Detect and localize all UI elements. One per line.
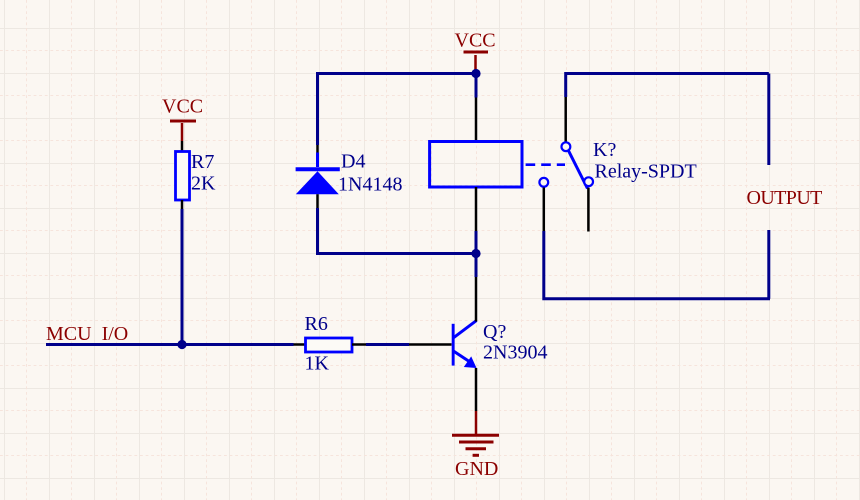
svg-text:D4: D4 bbox=[341, 151, 365, 173]
svg-text:Q?: Q? bbox=[483, 321, 506, 343]
node junction collector/diode bbox=[471, 249, 480, 258]
wire diode top to VCC rail bbox=[318, 74, 474, 146]
wire VCC node to relay coil bbox=[475, 74, 478, 98]
svg-text:2N3904: 2N3904 bbox=[483, 342, 547, 364]
wire collector to node bbox=[475, 231, 478, 277]
svg-text:OUTPUT: OUTPUT bbox=[747, 187, 823, 209]
svg-text:2K: 2K bbox=[191, 173, 216, 195]
svg-text:MCU I/O: MCU I/O bbox=[46, 323, 128, 345]
resistor R7 bbox=[176, 141, 190, 209]
wire diode bottom rail bbox=[318, 208, 474, 254]
svg-text:VCC: VCC bbox=[162, 96, 203, 118]
svg-text:R7: R7 bbox=[191, 151, 214, 173]
svg-text:1N4148: 1N4148 bbox=[338, 174, 402, 196]
svg-text:GND: GND bbox=[455, 458, 498, 480]
svg-text:K?: K? bbox=[593, 139, 616, 161]
resistor R6 bbox=[294, 338, 367, 352]
relay switch contacts bbox=[539, 97, 593, 232]
power port VCC (top) bbox=[455, 30, 496, 71]
relay coil K? bbox=[430, 98, 522, 232]
wire relay coil to collector node bbox=[475, 231, 478, 254]
transistor Q? 2N3904 bbox=[409, 277, 477, 411]
ground lead bbox=[475, 411, 478, 434]
wire output right vertical upper bbox=[767, 74, 770, 166]
wire output right vertical lower bbox=[767, 230, 770, 299]
ground symbol bbox=[452, 435, 499, 455]
wire MCU I/O horizontal bbox=[46, 343, 294, 346]
wire R7 bottom to MCU node bbox=[181, 209, 184, 345]
svg-text:1K: 1K bbox=[305, 353, 330, 375]
wire output bottom rail bbox=[544, 231, 770, 299]
relay actuator dashed link bbox=[526, 163, 565, 166]
diode D4 bbox=[296, 144, 340, 208]
node junction VCC/relay bbox=[471, 69, 480, 78]
svg-text:Relay-SPDT: Relay-SPDT bbox=[595, 161, 697, 183]
svg-text:VCC: VCC bbox=[455, 30, 496, 52]
power port VCC (left) bbox=[162, 96, 203, 142]
wire R6 to transistor base bbox=[366, 343, 409, 346]
svg-text:R6: R6 bbox=[305, 313, 328, 335]
wire switch common to output top rail bbox=[566, 74, 769, 98]
node junction at R7/MCU wire bbox=[177, 340, 186, 349]
